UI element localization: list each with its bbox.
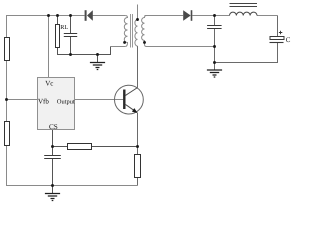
svg-text:Vc: Vc [45, 80, 53, 88]
svg-text:CS: CS [49, 123, 58, 131]
svg-text:Vfb: Vfb [38, 97, 49, 105]
svg-text:Output: Output [57, 98, 75, 105]
svg-text:C: C [286, 36, 291, 44]
svg-text:RL: RL [60, 24, 68, 31]
